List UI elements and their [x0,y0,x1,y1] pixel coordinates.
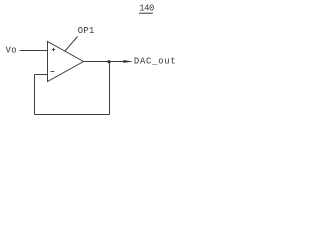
junction dot output node [107,60,110,63]
svg-text:Vo: Vo [6,46,17,56]
op-amp minus input symbol [51,71,55,73]
arrow to DAC_out [124,60,132,62]
svg-text:DAC_out: DAC_out [134,57,177,67]
op-amp OP1 triangle [48,42,84,82]
op-amp plus input symbol [52,48,55,51]
feedback wire: down from output node [109,62,111,115]
svg-text:OP1: OP1 [78,26,95,36]
wire output [84,61,131,63]
leader line to OP1 label [65,37,78,52]
wire noninverting input [20,50,49,52]
feedback wire: bottom run [35,114,110,116]
svg-text:140: 140 [139,4,154,14]
figure number 140 [139,4,154,14]
wire inverting input [35,74,49,76]
feedback wire: up left side [34,75,36,115]
